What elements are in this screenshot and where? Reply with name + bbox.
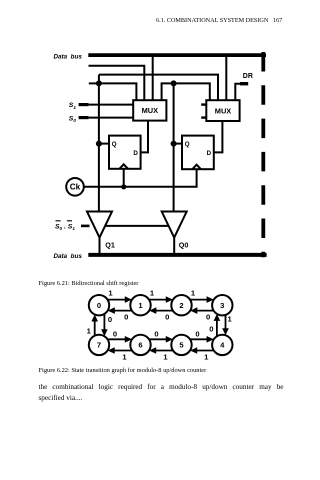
wire MUX2 output to FF2 D [214, 121, 223, 152]
arrow 4 to 3 (input 0) [209, 314, 220, 336]
enable stub into T1 [81, 225, 90, 228]
svg-text:7: 7 [97, 341, 101, 350]
junction Q1 node [96, 80, 102, 86]
svg-text:0: 0 [209, 325, 213, 334]
svg-text:2: 2 [179, 301, 183, 310]
svg-text:1: 1 [108, 288, 113, 297]
wire Q1 to bottom bus [99, 238, 101, 254]
svg-text:1: 1 [150, 288, 155, 297]
junction FF2 Q [171, 141, 177, 147]
arrow 1 to 0 (input 0) [108, 307, 132, 321]
wire serial-in from left to MUX1 input 2 [89, 66, 145, 100]
arrow 7 to 6 (input 0) [108, 330, 132, 343]
wire FF2 Q output [174, 143, 182, 145]
svg-text:Q: Q [185, 141, 190, 148]
junction Ck branch [121, 184, 126, 189]
svg-text:MUX: MUX [215, 106, 231, 115]
page header [156, 17, 282, 24]
svg-text:1: 1 [138, 301, 143, 310]
arrow 2 to 3 (input 1) [190, 288, 214, 303]
svg-text:1: 1 [122, 352, 127, 361]
wire Ck branch to FF1 [123, 169, 125, 187]
wire Ck line [84, 169, 197, 187]
svg-text:1: 1 [163, 352, 168, 361]
wire FF1 Q output [99, 143, 109, 145]
wire DR to MUX2 input 4 [235, 84, 240, 101]
junction Q0 node [171, 80, 177, 86]
state 5 [171, 335, 191, 355]
wire S0 to MUX1 [79, 116, 89, 119]
svg-text:0: 0 [165, 312, 169, 321]
arrow 0 to 1 (input 1) [108, 288, 132, 303]
top data bus (thick) [88, 53, 266, 57]
mux MUX1 [133, 100, 166, 120]
svg-text:0: 0 [154, 330, 158, 339]
state 0 [89, 295, 109, 315]
svg-text:D: D [133, 150, 138, 157]
flip-flop FF1 [109, 136, 141, 169]
wire Q1 to MUX2 input 2 [99, 75, 218, 101]
svg-text:Data bus: Data bus [54, 54, 83, 61]
svg-text:Q: Q [112, 141, 117, 148]
junction FF1 Q [96, 141, 102, 147]
DR input stub [240, 82, 248, 85]
svg-text:5: 5 [179, 341, 184, 350]
body paragraph line 2 [39, 394, 83, 402]
wire Q0 to MUX1 input 4 and MUX2 input 1 [162, 83, 210, 100]
state 3 [212, 295, 232, 315]
clock source Ck [66, 178, 84, 196]
svg-text:4: 4 [220, 341, 225, 350]
label S0bar . S1bar [55, 221, 75, 231]
svg-text:0: 0 [108, 315, 112, 324]
svg-text:1: 1 [191, 288, 196, 297]
svg-text:DR: DR [243, 73, 253, 80]
wire data bus to MUX2 input 3 [225, 56, 227, 100]
arrow 3 to 4 (input 1) [222, 314, 232, 335]
arrow 7 to 0 (input 1) [87, 314, 98, 335]
svg-text:D: D [207, 150, 212, 157]
caption figure 6.22 [39, 367, 207, 374]
svg-text:0: 0 [124, 312, 128, 321]
svg-text:Ck: Ck [70, 183, 81, 192]
svg-text:6: 6 [138, 341, 142, 350]
wire enable T1 to T2 [105, 225, 168, 227]
wire Q1 to MUX1 input 1 [99, 83, 136, 100]
arrow 4 to 5 (input 1) [190, 347, 214, 361]
state 4 [212, 335, 232, 355]
arrow 6 to 7 (input 1) [108, 347, 132, 361]
wire S0 stub to MUX2 [201, 116, 206, 118]
svg-text:Data bus: Data bus [54, 253, 83, 260]
mux MUX2 [206, 100, 239, 121]
arrow 5 to 6 (input 1) [149, 347, 173, 361]
state 1 [130, 295, 150, 315]
svg-text:1: 1 [87, 327, 92, 336]
state 7 [89, 335, 109, 355]
svg-text:MUX: MUX [142, 106, 158, 115]
svg-text:Q1: Q1 [105, 241, 115, 250]
caption figure 6.21 [39, 280, 139, 287]
arrow 1 to 2 (input 1) [149, 288, 173, 303]
wire Q0 vertical net [173, 83, 175, 211]
body paragraph line 1 [39, 383, 284, 391]
wire data bus to MUX1 input 3 [152, 56, 154, 100]
arrow 2 to 1 (input 0) [149, 307, 173, 321]
svg-text:1: 1 [227, 314, 232, 323]
wire S1 stub to MUX2 [201, 103, 206, 105]
arrow 0 to 7 (input 0) [101, 314, 112, 336]
tri-state buffer T1 [87, 212, 112, 238]
wire Q1 stub left [89, 82, 99, 84]
svg-text:S1: S1 [69, 102, 77, 110]
svg-text:Q0: Q0 [179, 241, 189, 250]
state 6 [130, 335, 150, 355]
arrow 6 to 5 (input 0) [149, 330, 173, 343]
svg-text:0: 0 [97, 301, 101, 310]
right bus edge (dashed thick) [261, 52, 265, 257]
bottom data bus (thick) [88, 253, 266, 257]
svg-text:S0: S0 [69, 115, 77, 123]
svg-text:0: 0 [206, 312, 210, 321]
svg-text:0: 0 [195, 330, 199, 339]
arrow 5 to 4 (input 0) [190, 330, 214, 343]
wire MUX1 output to FF1 D [141, 121, 148, 153]
svg-text:1: 1 [204, 352, 209, 361]
flip-flop FF2 [182, 136, 214, 170]
wire S1 to MUX1 [79, 103, 89, 106]
state 2 [171, 295, 191, 315]
arrow 3 to 2 (input 0) [190, 307, 213, 321]
tri-state buffer T2 [162, 212, 187, 238]
wire Q0 to bottom bus [173, 238, 175, 254]
svg-text:0: 0 [113, 330, 117, 339]
svg-text:3: 3 [220, 301, 224, 310]
wire Q1 vertical net [98, 75, 100, 212]
svg-text:S0 . S1: S0 . S1 [55, 223, 75, 231]
